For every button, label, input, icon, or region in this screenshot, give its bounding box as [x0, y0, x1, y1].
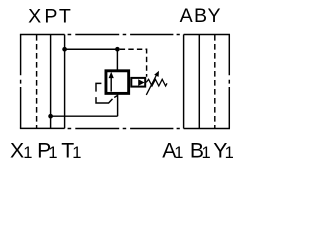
pilot line dashed from junction to spring — [120, 49, 147, 77]
svg-text:1: 1 — [174, 144, 183, 162]
svg-text:Y: Y — [208, 5, 221, 27]
port line P1 (solid vertical in left block) — [50, 35, 52, 129]
svg-text:1: 1 — [72, 144, 81, 162]
junction node on P1 line — [48, 114, 53, 119]
adjustment arrow head — [154, 71, 159, 77]
valve body U1 (pressure valve square) — [106, 71, 129, 94]
wire from valve bottom to P1 line — [51, 115, 118, 117]
enclosure dash-dot line bottom (sandwich plate boundary) — [68, 128, 180, 130]
svg-text:X: X — [28, 6, 41, 28]
port line X1 (dashed vertical in left block) — [36, 35, 38, 128]
right port block outline bottom edge — [184, 128, 230, 130]
wire valve outlet vertical — [117, 94, 119, 117]
svg-text:1: 1 — [225, 144, 234, 162]
svg-text:X: X — [10, 139, 24, 162]
svg-text:T: T — [59, 6, 71, 28]
left port block (X P T channels) outline top edge — [20, 34, 65, 36]
actuator box filled triangle — [138, 79, 144, 86]
left port block outline bottom edge — [20, 127, 65, 129]
left port block left edge (dash-dot break in middle) — [20, 35, 22, 129]
svg-text:1: 1 — [202, 144, 211, 162]
actuator box at valve right — [131, 78, 145, 87]
port line T1 (right edge of left block) — [64, 35, 66, 129]
port line Y1 (dashed vertical in right block) — [214, 35, 216, 128]
wire valve inlet vertical — [116, 49, 118, 70]
junction node at valve inlet — [115, 47, 120, 52]
valve flow arrow shaft — [110, 78, 112, 92]
svg-text:1: 1 — [23, 144, 32, 162]
svg-text:1: 1 — [48, 144, 57, 162]
pilot line dashed bracket to valve left side — [96, 83, 117, 103]
junction node on T1 line — [62, 47, 67, 52]
svg-text:A: A — [180, 5, 194, 27]
right port block (A B Y channels) outline top edge — [184, 34, 230, 36]
port line B1 (solid vertical in right block) — [198, 35, 200, 129]
spring — [146, 79, 167, 86]
right port block right edge (dash-dot break in middle) — [228, 35, 230, 129]
svg-text:P: P — [44, 6, 57, 28]
valve flow arrow head — [109, 72, 114, 78]
right port block left edge (port A1) — [183, 35, 185, 129]
wire from T1 line to valve top — [65, 48, 118, 50]
adjustment arrow shaft — [146, 75, 156, 95]
svg-text:B: B — [194, 5, 207, 27]
enclosure dash-dot line top (sandwich plate boundary) — [68, 34, 180, 36]
